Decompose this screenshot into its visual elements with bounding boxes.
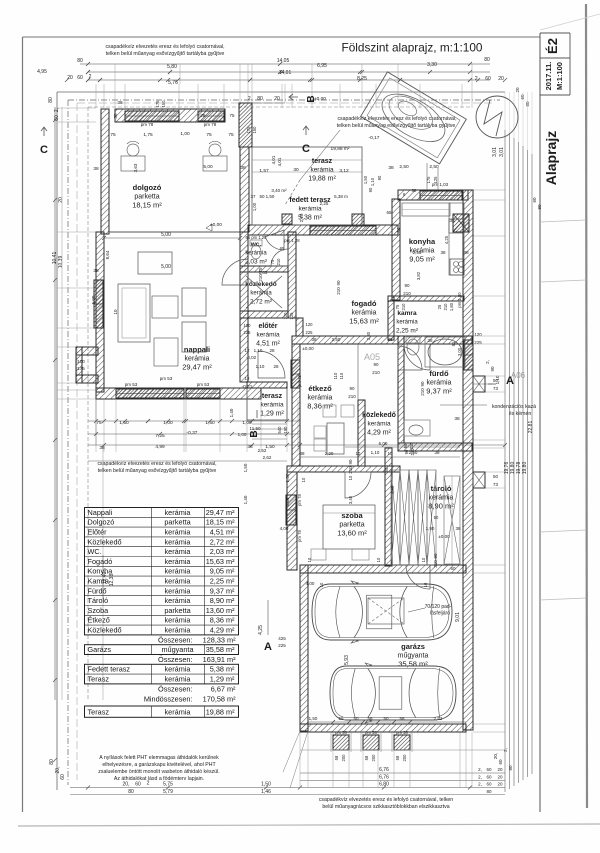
- svg-text:5,38 m: 5,38 m: [334, 194, 348, 199]
- svg-text:38: 38: [93, 268, 99, 274]
- svg-text:10: 10: [301, 477, 306, 482]
- svg-text:kerámia: kerámia: [298, 206, 322, 213]
- svg-text:2,50: 2,50: [429, 164, 439, 170]
- svg-text:zsaluelembe öntött monolit vas: zsaluelembe öntött monolit vasbeton áthi…: [98, 769, 219, 775]
- svg-text:15,63 m²: 15,63 m²: [206, 557, 235, 566]
- svg-text:50: 50: [259, 194, 265, 199]
- svg-text:előtér: előtér: [258, 323, 277, 330]
- svg-text:6,80: 6,80: [379, 782, 389, 788]
- svg-text:kerámia: kerámia: [185, 356, 210, 363]
- svg-text:10: 10: [307, 557, 312, 562]
- svg-text:1,00: 1,00: [238, 432, 247, 437]
- svg-text:kerámia: kerámia: [260, 402, 284, 409]
- exterior wall: dolgozo top: [115, 109, 225, 122]
- svg-text:8,36 m²: 8,36 m²: [307, 402, 333, 411]
- top mid verticals dims: [247, 64, 249, 103]
- etkezo/kozlekedo divider: [358, 400, 365, 466]
- svg-text:37: 37: [250, 194, 256, 199]
- attic hatch dashed: [368, 598, 404, 624]
- svg-text:pm 53: pm 53: [125, 382, 138, 387]
- svg-text:A05: A05: [364, 352, 380, 362]
- svg-text:2,72 m²: 2,72 m²: [250, 299, 273, 306]
- svg-text:csapadékvíz elvezetés eresz és: csapadékvíz elvezetés eresz és lefolyó c…: [319, 797, 453, 803]
- svg-text:1,40: 1,40: [229, 408, 234, 417]
- svg-text:20: 20: [497, 775, 503, 780]
- svg-text:4,29 m²: 4,29 m²: [367, 430, 391, 437]
- tarolo north wall: [398, 443, 472, 451]
- scan right edge: [586, 4, 587, 808]
- konyha chimney block: [453, 214, 469, 232]
- svg-text:B: B: [249, 430, 260, 437]
- paper bottom edge: [18, 824, 600, 826]
- svg-text:60: 60: [520, 94, 525, 100]
- svg-text:210: 210: [409, 442, 414, 450]
- projection lines bottom left: [95, 400, 97, 452]
- svg-text:belül műanyagrácsos szikkasztó: belül műanyagrácsos szikkasztóblokkban e…: [322, 804, 449, 810]
- exterior wall: dolgozo left: [101, 109, 109, 234]
- svg-text:Alaprajz: Alaprajz: [543, 131, 559, 185]
- svg-text:80: 80: [49, 759, 55, 765]
- north wall mid (fogado top): [248, 225, 398, 235]
- title block divider2: [540, 94, 570, 96]
- title block left line: [539, 33, 541, 812]
- svg-text:kerámia: kerámia: [165, 675, 192, 684]
- svg-text:70/120 pad-: 70/120 pad-: [425, 604, 452, 610]
- svg-text:kerámia: kerámia: [165, 577, 192, 586]
- svg-text:90: 90: [403, 443, 408, 448]
- svg-text:kerámia: kerámia: [165, 665, 192, 674]
- leader diagonals bottom left: [283, 731, 300, 772]
- window dolgozo 1: [125, 111, 179, 121]
- svg-text:fürdő: fürdő: [429, 369, 449, 378]
- svg-text:parketta: parketta: [134, 194, 159, 201]
- svg-text:10: 10: [319, 582, 324, 587]
- svg-text:75: 75: [270, 259, 275, 264]
- svg-text:kerámia: kerámia: [310, 167, 334, 174]
- svg-text:A nyílások felett PHT elemmaga: A nyílások felett PHT elemmagas áthidaló…: [99, 755, 219, 761]
- svg-text:128,33 m²: 128,33 m²: [203, 635, 236, 644]
- svg-text:pm 78: pm 78: [141, 122, 154, 127]
- svg-text:5,93: 5,93: [344, 655, 350, 665]
- etkezo table: [327, 423, 344, 454]
- svg-text:1,50: 1,50: [243, 463, 248, 472]
- svg-text:20,: 20,: [493, 753, 498, 759]
- area table: [85, 508, 239, 718]
- svg-text:9,05 m²: 9,05 m²: [409, 255, 435, 264]
- svg-text:2,: 2,: [478, 782, 482, 787]
- svg-text:6,00: 6,00: [379, 441, 388, 446]
- svg-text:elhelyezésre, a garázskapu kiv: elhelyezésre, a garázskapu kivételével, …: [102, 762, 216, 768]
- svg-text:50: 50: [384, 467, 389, 472]
- svg-text:38: 38: [99, 445, 105, 451]
- svg-text:2,80: 2,80: [366, 331, 371, 340]
- svg-text:58: 58: [334, 755, 339, 760]
- svg-text:9,05 m²: 9,05 m²: [210, 567, 235, 576]
- svg-text:Garázs: Garázs: [88, 645, 112, 654]
- svg-text:19,88 m²: 19,88 m²: [331, 146, 350, 152]
- svg-text:1,50: 1,50: [285, 473, 290, 482]
- svg-text:4,01: 4,01: [277, 157, 282, 166]
- svg-text:58: 58: [399, 716, 405, 721]
- svg-text:175: 175: [155, 100, 160, 108]
- window szoba west: [286, 495, 296, 525]
- konyha west wall: [392, 199, 400, 300]
- svg-text:É2: É2: [545, 38, 560, 54]
- svg-text:3,01: 3,01: [499, 147, 505, 157]
- dolgozo/nappali floor boundary: [109, 231, 240, 233]
- svg-text:6,67 m²: 6,67 m²: [211, 684, 236, 693]
- svg-text:pm 1,80: pm 1,80: [457, 292, 462, 308]
- svg-text:2,62: 2,62: [263, 455, 272, 460]
- konyha counter: [449, 203, 464, 275]
- garage left wall: [300, 565, 308, 731]
- nappali sofa set: [118, 284, 150, 342]
- svg-text:1,29 m²: 1,29 m²: [260, 411, 284, 418]
- svg-text:Földszint alaprajz, m:1:100: Földszint alaprajz, m:1:100: [342, 41, 483, 55]
- terasz 1.29 outline: [247, 382, 287, 420]
- svg-text:pm 38: pm 38: [335, 730, 347, 735]
- garage top wall: [300, 565, 466, 573]
- svg-text:9,37 m²: 9,37 m²: [426, 387, 452, 396]
- svg-text:65: 65: [280, 246, 285, 251]
- svg-text:és kémén: és kémén: [509, 411, 532, 417]
- bay window nappali: [76, 347, 98, 355]
- fedett terasz columns: [352, 214, 364, 226]
- svg-text:200: 200: [371, 754, 376, 762]
- svg-text:80: 80: [486, 789, 492, 794]
- svg-text:175: 175: [77, 366, 85, 371]
- svg-text:±0,00: ±0,00: [210, 222, 222, 228]
- svg-text:51: 51: [451, 341, 456, 346]
- svg-text:10: 10: [423, 582, 428, 587]
- door fedett: [265, 230, 284, 250]
- svg-text:1,00: 1,00: [163, 420, 173, 426]
- svg-text:65: 65: [386, 210, 392, 215]
- svg-text:50: 50: [493, 378, 499, 383]
- svg-text:műgyanta: műgyanta: [161, 645, 194, 654]
- svg-text:2,: 2,: [478, 767, 482, 772]
- svg-text:Előtér: Előtér: [88, 528, 108, 537]
- svg-text:-0,02: -0,02: [246, 355, 257, 360]
- svg-text:Étkező: Étkező: [88, 616, 110, 625]
- furdo west wall: [398, 336, 404, 443]
- svg-text:kerámia: kerámia: [165, 508, 192, 517]
- svg-text:38: 38: [93, 166, 99, 172]
- svg-text:170,58 m²: 170,58 m²: [203, 695, 236, 704]
- svg-text:1,85: 1,85: [259, 270, 268, 275]
- svg-text:fogadó: fogadó: [352, 299, 377, 308]
- svg-text:2,: 2,: [485, 360, 490, 364]
- svg-text:C: C: [40, 144, 48, 156]
- svg-text:90: 90: [404, 283, 410, 288]
- svg-text:1,90: 1,90: [426, 526, 435, 531]
- svg-text:120: 120: [474, 332, 482, 337]
- door furdo: [398, 346, 422, 370]
- svg-text:120: 120: [244, 323, 252, 328]
- svg-text:120: 120: [306, 322, 314, 327]
- svg-text:73: 73: [493, 482, 499, 487]
- svg-text:65 pm 1,28: 65 pm 1,28: [246, 235, 268, 240]
- svg-text:80: 80: [484, 57, 490, 63]
- svg-text:35,58 m²: 35,58 m²: [398, 660, 428, 669]
- svg-text:1,00: 1,00: [242, 420, 252, 426]
- svg-text:4,25: 4,25: [258, 625, 264, 635]
- plot dashline top: [68, 99, 500, 101]
- tarolo hatch strips: [391, 470, 400, 565]
- frame left edge: [22, 37, 24, 812]
- frame top edge: [23, 36, 541, 38]
- svg-text:szoba: szoba: [341, 511, 363, 520]
- svg-text:60: 60: [498, 759, 503, 765]
- mid horizontal wall y336: [292, 336, 472, 344]
- svg-text:38: 38: [427, 338, 433, 343]
- szoba north wall y466: [287, 466, 400, 472]
- svg-text:5,80: 5,80: [167, 64, 177, 70]
- svg-text:pm 78: pm 78: [204, 122, 217, 127]
- svg-text:9,37 m²: 9,37 m²: [210, 586, 235, 595]
- svg-text:38: 38: [387, 337, 393, 342]
- svg-text:kerámia: kerámia: [165, 537, 192, 546]
- svg-text:4,51 m²: 4,51 m²: [256, 341, 280, 348]
- svg-text:telken belül műanyag esővízgyű: telken belül műanyag esővízgyűjtő tartál…: [337, 123, 456, 129]
- svg-text:1,50: 1,50: [309, 716, 318, 721]
- svg-text:10: 10: [348, 475, 353, 480]
- svg-text:kerámia: kerámia: [245, 251, 267, 257]
- title block box right: [569, 33, 571, 95]
- svg-text:25: 25: [437, 304, 442, 309]
- svg-text:3,40: 3,40: [348, 495, 353, 504]
- window nappali west: [94, 280, 103, 328]
- svg-text:11,50: 11,50: [250, 426, 261, 431]
- svg-text:38: 38: [388, 165, 394, 171]
- svg-text:38: 38: [463, 250, 469, 256]
- svg-text:1,40: 1,40: [243, 495, 248, 504]
- svg-text:WC.: WC.: [88, 547, 102, 556]
- svg-text:73: 73: [493, 386, 499, 391]
- svg-text:parketta: parketta: [164, 518, 191, 527]
- szoba/tarolo divider: [385, 448, 392, 566]
- svg-text:30: 30: [293, 167, 299, 173]
- svg-text:parketta: parketta: [339, 522, 364, 529]
- svg-text:Nappali: Nappali: [88, 508, 113, 517]
- svg-text:2,50: 2,50: [399, 164, 409, 170]
- wc/fogado divider wall: [288, 232, 296, 318]
- svg-text:200: 200: [402, 754, 407, 762]
- svg-text:38: 38: [113, 113, 118, 119]
- svg-text:19,88 m²: 19,88 m²: [206, 707, 235, 716]
- svg-text:kerámia: kerámia: [165, 547, 192, 556]
- exterior wall: nappali bottom: [96, 388, 261, 399]
- svg-text:425: 425: [278, 636, 286, 641]
- svg-text:2,: 2,: [478, 775, 482, 780]
- svg-text:1,50: 1,50: [363, 175, 368, 184]
- svg-text:Összesen:: Összesen:: [158, 635, 192, 644]
- door dolgozo: [222, 259, 248, 285]
- window nappali s2: [186, 389, 220, 398]
- svg-text:4,00: 4,00: [306, 581, 315, 586]
- garage bottom wall: [300, 724, 466, 732]
- svg-text:225: 225: [278, 643, 286, 648]
- svg-text:150: 150: [283, 426, 288, 434]
- svg-text:pm 78: pm 78: [297, 530, 302, 542]
- svg-text:1,10: 1,10: [370, 177, 375, 186]
- svg-text:10: 10: [376, 557, 381, 562]
- svg-text:58: 58: [367, 716, 373, 721]
- exterior wall: nappali left: [96, 232, 104, 392]
- svg-text:210: 210: [348, 394, 356, 399]
- svg-text:terasz: terasz: [262, 393, 283, 400]
- svg-text:csapadékvíz elvezetés eresz és: csapadékvíz elvezetés eresz és lefolyó c…: [97, 461, 216, 467]
- car 1 sedan: [312, 581, 452, 643]
- konyha top counter: [402, 203, 450, 216]
- svg-text:1,80: 1,80: [449, 302, 454, 311]
- svg-text:50: 50: [383, 716, 389, 721]
- svg-text:210: 210: [276, 258, 281, 266]
- svg-text:2,: 2,: [248, 96, 252, 102]
- svg-text:75: 75: [110, 132, 116, 138]
- svg-text:kerámia: kerámia: [165, 596, 192, 605]
- svg-text:12: 12: [244, 376, 250, 381]
- svg-text:38: 38: [299, 451, 305, 456]
- svg-text:12: 12: [244, 348, 250, 353]
- svg-text:6,95: 6,95: [317, 63, 327, 69]
- wall dolgozo right: [240, 147, 249, 232]
- svg-text:75: 75: [395, 304, 400, 309]
- svg-text:75: 75: [200, 113, 206, 118]
- scan top right shade: [540, 14, 600, 30]
- svg-text:29,47 m²: 29,47 m²: [206, 508, 235, 517]
- svg-text:18,15 m²: 18,15 m²: [132, 201, 162, 210]
- szoba bed: [323, 505, 375, 549]
- svg-text:210: 210: [348, 466, 353, 474]
- svg-text:60: 60: [60, 774, 66, 780]
- car 2 hatchback: [330, 663, 456, 723]
- svg-text:210: 210: [443, 303, 448, 311]
- dim chain top: [80, 63, 490, 65]
- svg-text:kerámia: kerámia: [367, 421, 391, 428]
- svg-text:A06: A06: [511, 371, 526, 380]
- svg-text:3,00: 3,00: [457, 347, 462, 356]
- svg-text:20: 20: [498, 76, 504, 82]
- svg-text:2,20: 2,20: [325, 451, 334, 456]
- projection lines right: [473, 189, 505, 191]
- svg-text:Szoba: Szoba: [88, 606, 110, 615]
- svg-text:8,64: 8,64: [105, 250, 110, 259]
- door entrance: [258, 351, 285, 378]
- svg-text:±0,00: ±0,00: [302, 346, 314, 351]
- dim chain left: [54, 107, 56, 700]
- svg-text:10: 10: [388, 451, 393, 456]
- overhang dashed top: [88, 106, 470, 108]
- svg-text:20: 20: [67, 75, 73, 81]
- projection lines top: [95, 84, 97, 108]
- svg-text:4,40: 4,40: [390, 485, 395, 494]
- svg-text:kerámia: kerámia: [165, 557, 192, 566]
- projection lines bottom garage: [299, 732, 301, 788]
- svg-text:90: 90: [373, 362, 379, 367]
- tree circle: [476, 96, 518, 138]
- svg-text:38: 38: [454, 416, 460, 422]
- svg-text:50: 50: [353, 716, 359, 721]
- door tarolo-garaz: [406, 565, 430, 589]
- svg-text:90: 90: [348, 459, 353, 465]
- svg-text:5,75: 5,75: [163, 782, 173, 788]
- svg-text:540: 540: [277, 426, 282, 434]
- chimney block B: [473, 472, 485, 488]
- svg-text:58: 58: [395, 755, 400, 760]
- wc fixtures: [251, 245, 261, 259]
- terasz C outline: [252, 147, 362, 225]
- garage door pillars: [333, 735, 349, 750]
- svg-text:8,90 m²: 8,90 m²: [210, 596, 235, 605]
- svg-text:4,01: 4,01: [271, 155, 276, 164]
- svg-text:konyha: konyha: [409, 237, 436, 246]
- plot line bottom mid: [300, 749, 505, 751]
- overhang dashed left: [87, 107, 89, 700]
- svg-text:58: 58: [364, 755, 369, 760]
- svg-text:50: 50: [450, 566, 456, 571]
- svg-text:Tároló: Tároló: [88, 596, 109, 605]
- svg-text:210: 210: [336, 287, 341, 295]
- plot boundary top: [57, 91, 505, 93]
- svg-text:-0,37: -0,37: [187, 430, 198, 436]
- svg-text:90: 90: [433, 553, 438, 559]
- svg-text:175: 175: [246, 126, 251, 134]
- svg-text:50: 50: [434, 515, 439, 520]
- svg-text:Összesen:: Összesen:: [158, 655, 192, 664]
- svg-text:6,76: 6,76: [379, 775, 389, 781]
- svg-text:5,00: 5,00: [161, 264, 171, 270]
- svg-text:garázs: garázs: [401, 642, 425, 651]
- svg-text:80: 80: [128, 789, 134, 795]
- svg-text:±0,00: ±0,00: [438, 534, 450, 539]
- svg-text:3,63: 3,63: [133, 163, 138, 172]
- svg-text:80: 80: [77, 58, 83, 64]
- window konyha: [420, 191, 462, 200]
- svg-text:Terasz: Terasz: [88, 707, 110, 716]
- svg-text:M:1:100: M:1:100: [555, 62, 564, 90]
- window furdo east: [464, 340, 473, 370]
- svg-text:2,72 m²: 2,72 m²: [210, 537, 235, 546]
- svg-text:1,50: 1,50: [265, 444, 275, 450]
- plot boundary left: [56, 92, 58, 790]
- svg-text:2,25: 2,25: [320, 201, 329, 206]
- svg-text:2,52: 2,52: [258, 448, 267, 453]
- svg-text:pm 53: pm 53: [160, 376, 173, 381]
- svg-text:Közlekedő: Közlekedő: [88, 537, 122, 546]
- svg-text:1,57: 1,57: [259, 168, 269, 174]
- svg-text:28: 28: [269, 348, 275, 353]
- svg-text:10: 10: [421, 557, 426, 562]
- svg-text:20: 20: [497, 782, 503, 787]
- svg-text:13,60 m²: 13,60 m²: [337, 529, 367, 538]
- wc west wall: [240, 232, 248, 382]
- spa rotated square: [361, 72, 467, 164]
- svg-text:2,50: 2,50: [332, 337, 341, 342]
- svg-text:35,58 m²: 35,58 m²: [206, 645, 235, 654]
- svg-text:kerámia: kerámia: [165, 616, 192, 625]
- svg-text:38: 38: [449, 218, 455, 224]
- svg-text:58: 58: [338, 716, 344, 721]
- svg-text:28: 28: [273, 364, 279, 369]
- svg-text:10: 10: [356, 451, 361, 456]
- svg-text:1,75: 1,75: [143, 132, 153, 138]
- svg-text:3,30: 3,30: [427, 62, 437, 68]
- svg-text:Kamra: Kamra: [88, 577, 110, 586]
- svg-text:Fedett terasz: Fedett terasz: [88, 665, 131, 674]
- svg-text:38: 38: [434, 450, 440, 455]
- svg-text:Közlekedő: Közlekedő: [88, 626, 122, 635]
